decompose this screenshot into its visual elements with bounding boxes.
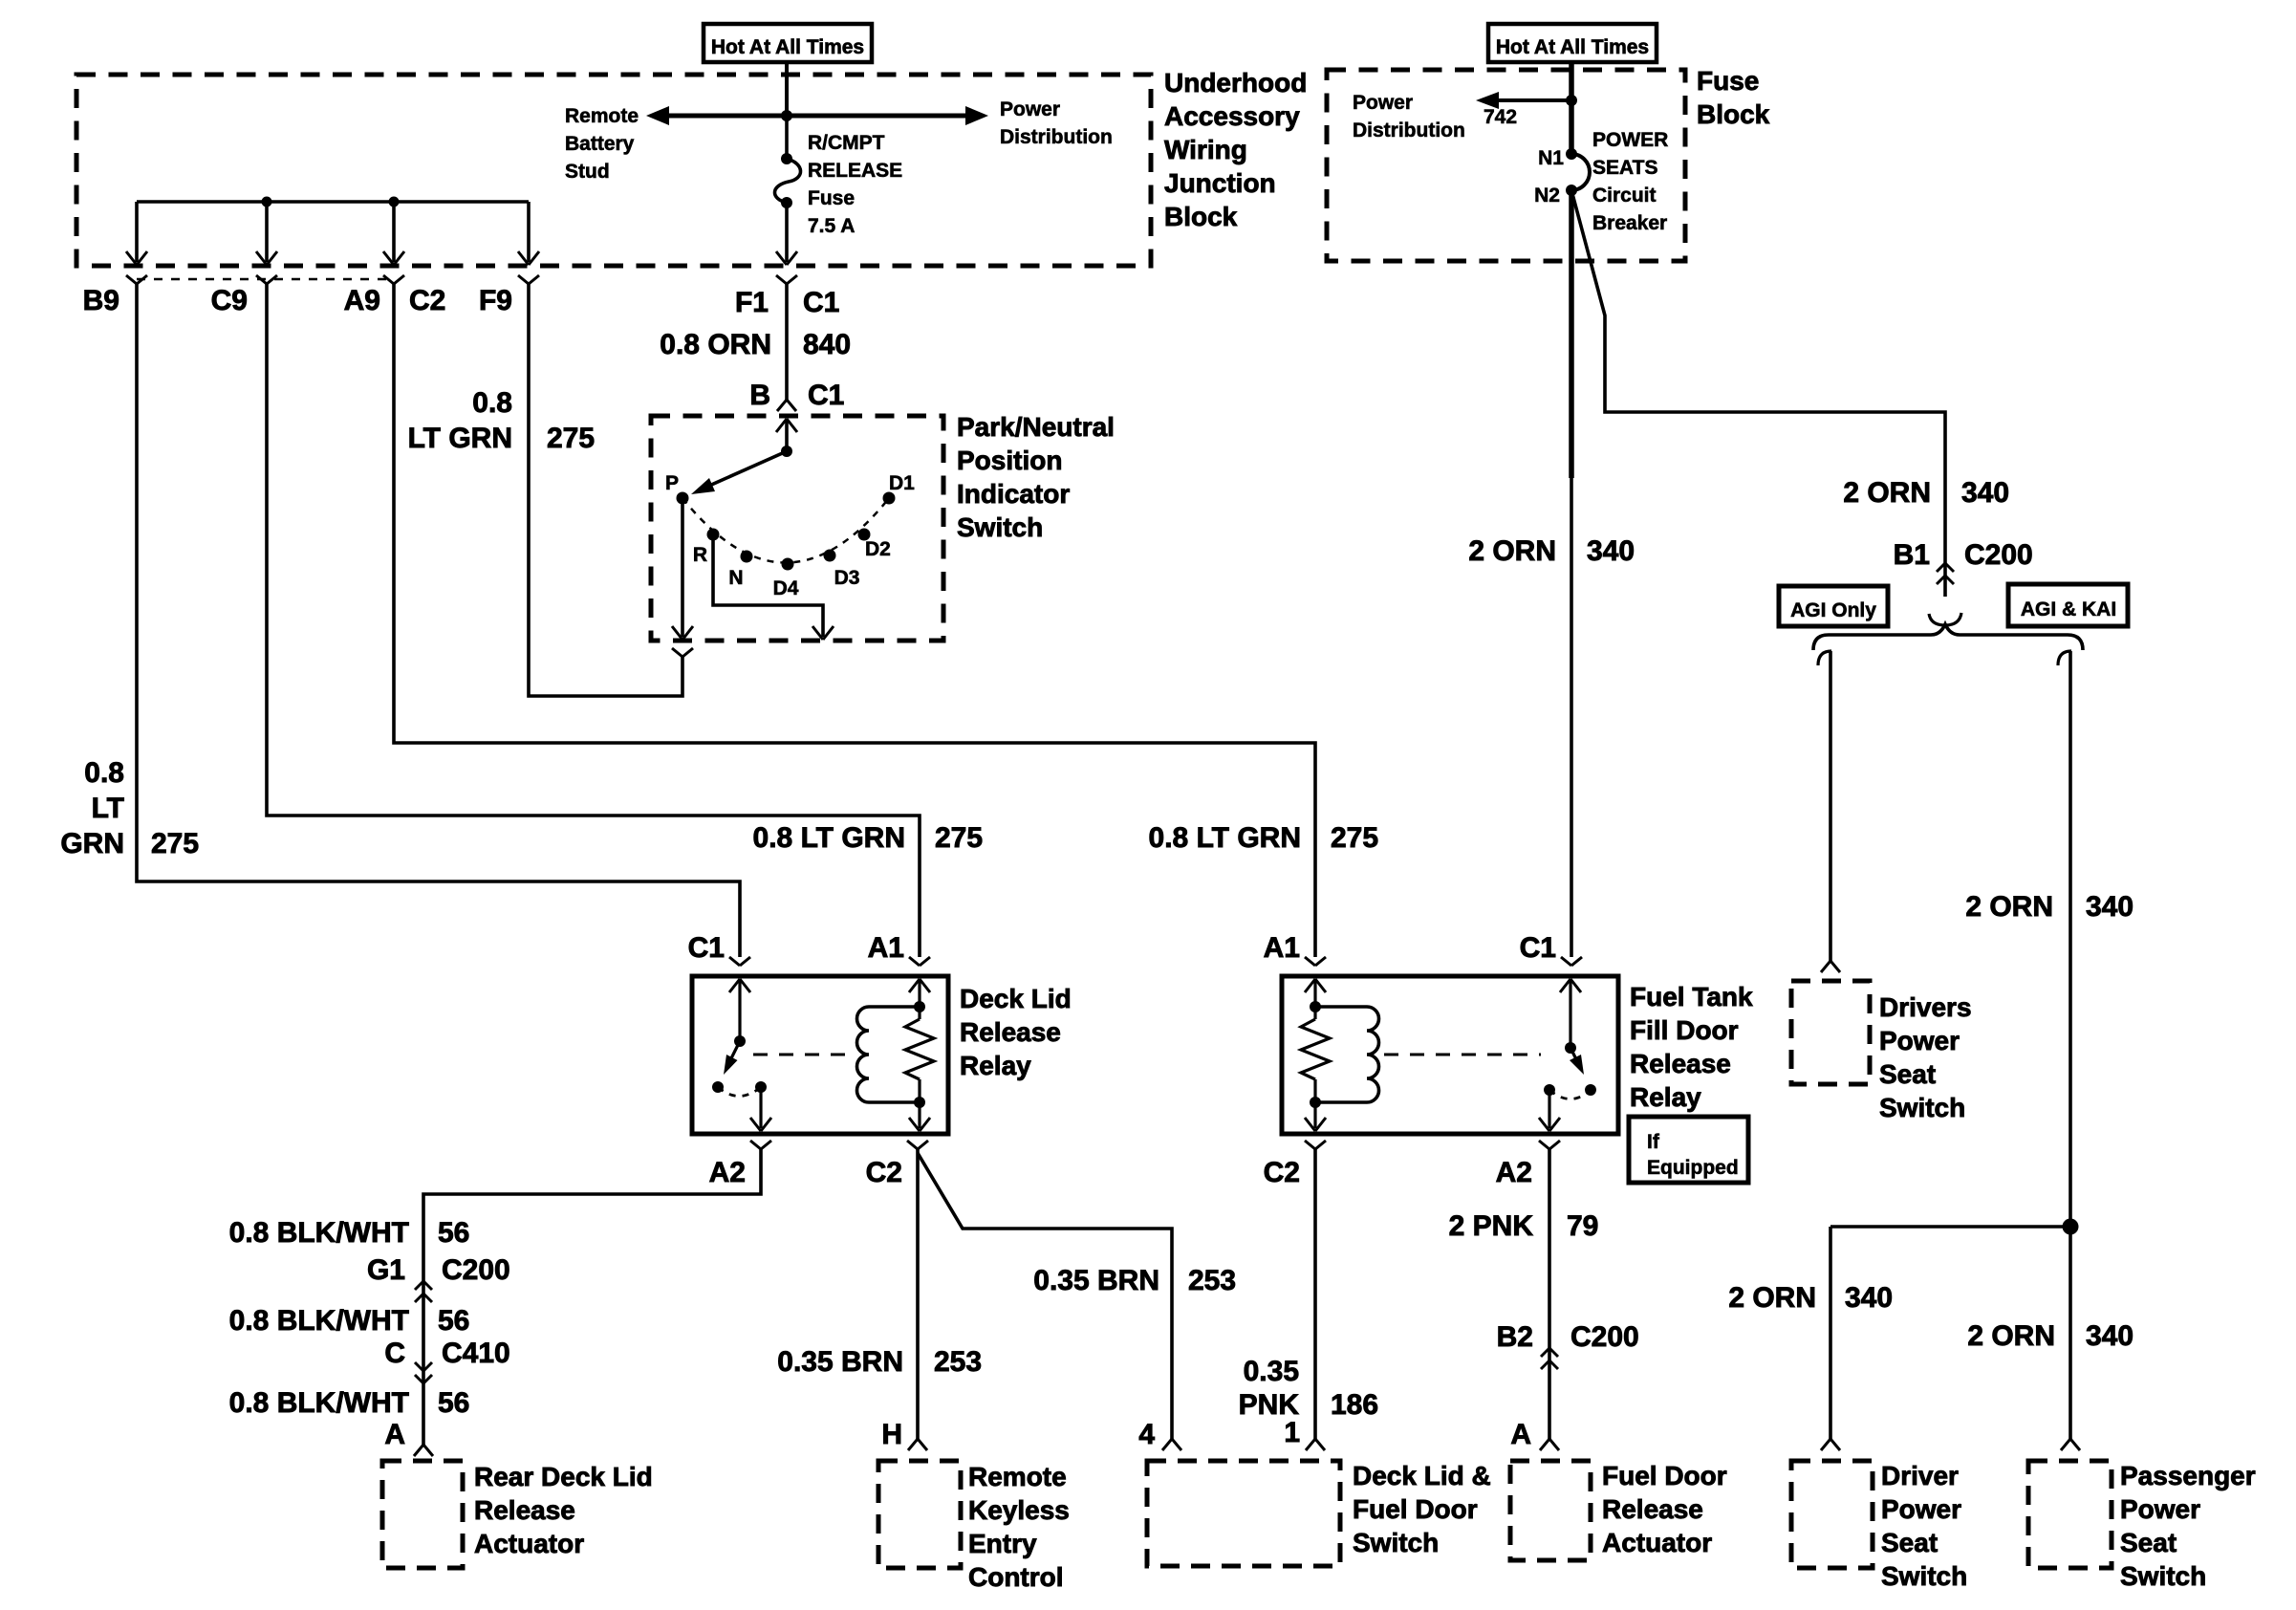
connector below deck relay A2 [750, 1141, 761, 1149]
svg-text:LT: LT [92, 793, 124, 824]
node junction 742 arrow [1566, 95, 1577, 106]
feed wire from Hot At All Times through fuse block [1569, 62, 1574, 154]
remote keyless entry control (dashed box) [878, 1461, 961, 1568]
svg-text:P: P [665, 472, 679, 494]
contact arc (dashed) [682, 498, 889, 563]
node C9 bus junction [262, 197, 272, 207]
svg-text:Seat: Seat [1881, 1528, 1938, 1557]
contact D3 [824, 550, 836, 562]
bus drop wires to B9 C9 A9 F9 [135, 202, 139, 262]
svg-text:C1: C1 [803, 287, 839, 318]
svg-text:Fuse: Fuse [808, 187, 855, 209]
svg-text:RELEASE: RELEASE [808, 160, 902, 182]
svg-text:7.5 A: 7.5 A [808, 215, 855, 237]
relay common contact [1585, 1084, 1596, 1096]
svg-text:H: H [881, 1419, 902, 1450]
svg-text:Power: Power [2120, 1494, 2200, 1524]
svg-text:Power: Power [1353, 92, 1413, 114]
connector below P output [672, 648, 682, 657]
connector F1/C1 below fuse [776, 275, 787, 284]
svg-text:Seat: Seat [1879, 1059, 1936, 1089]
driver power seat switch (dashed box) [1791, 1461, 1873, 1568]
svg-text:79: 79 [1567, 1210, 1598, 1242]
relay C1 pin entry [1560, 979, 1570, 992]
label box Hot At All Times (right) [1488, 24, 1657, 62]
svg-text:Switch: Switch [1881, 1561, 1967, 1591]
svg-text:POWER: POWER [1592, 129, 1668, 151]
svg-text:0.8: 0.8 [472, 387, 512, 419]
svg-text:A9: A9 [344, 285, 380, 316]
POWER SEATS circuit breaker [1566, 148, 1577, 160]
svg-text:Relay: Relay [1630, 1082, 1701, 1112]
svg-text:Remote: Remote [968, 1462, 1067, 1491]
connector below deck relay C2 [907, 1141, 918, 1149]
svg-text:1: 1 [1284, 1417, 1300, 1448]
relay A2 pin exit [759, 1087, 762, 1128]
power distribution arrow (fuse block) [1491, 98, 1571, 102]
switch feed entry arrow B [776, 419, 787, 432]
svg-text:B2: B2 [1497, 1321, 1533, 1353]
contact N [741, 551, 753, 563]
wire deck C2 branch to deck lid & fuel door switch pin 4 [918, 1153, 1172, 1439]
svg-text:Battery: Battery [565, 133, 635, 155]
passenger power seat switch (dashed box) [2028, 1461, 2112, 1568]
wire splice to passenger power seat switch [2069, 1227, 2072, 1439]
svg-text:Driver: Driver [1881, 1461, 1959, 1490]
fuse R/CMPT RELEASE 7.5A [785, 116, 789, 159]
svg-text:R/CMPT: R/CMPT [808, 132, 885, 154]
svg-text:Actuator: Actuator [474, 1529, 584, 1558]
drivers power seat switch (dashed box, AGI only) [1791, 981, 1870, 1084]
relay operate link (dashed) [1384, 1054, 1541, 1056]
svg-text:56: 56 [438, 1387, 469, 1419]
svg-text:R: R [693, 544, 707, 566]
svg-text:Fill Door: Fill Door [1630, 1015, 1739, 1045]
svg-text:Remote: Remote [565, 105, 639, 127]
svg-text:D4: D4 [773, 577, 799, 599]
wire from Hot At All Times into junction block [785, 62, 789, 116]
svg-text:340: 340 [2086, 1320, 2134, 1352]
svg-text:Control: Control [968, 1562, 1064, 1592]
svg-text:275: 275 [547, 423, 595, 454]
svg-text:C2: C2 [1264, 1157, 1300, 1188]
node switch common [781, 446, 792, 457]
node 2 ORN splice [2063, 1219, 2079, 1235]
svg-text:2 ORN: 2 ORN [1843, 477, 1931, 509]
svg-text:253: 253 [934, 1346, 982, 1378]
svg-text:Release: Release [1602, 1494, 1703, 1524]
wire deck C2 to remote keyless entry control [916, 1149, 920, 1439]
bus wire inside junction block [137, 200, 529, 204]
label box AGI & KAI [2008, 584, 2128, 626]
contact D4 [782, 558, 794, 571]
svg-text:840: 840 [803, 329, 851, 360]
svg-text:D3: D3 [834, 567, 860, 589]
contact travel arc [718, 1087, 761, 1097]
svg-text:Breaker: Breaker [1592, 212, 1667, 234]
svg-text:Accessory: Accessory [1164, 101, 1300, 131]
svg-text:Fuel Tank: Fuel Tank [1630, 982, 1753, 1012]
svg-text:253: 253 [1188, 1265, 1236, 1296]
svg-text:Actuator: Actuator [1602, 1528, 1712, 1557]
relay switch pivot [1565, 1042, 1576, 1054]
svg-text:N1: N1 [1538, 147, 1564, 169]
contact P [677, 492, 689, 505]
svg-text:Rear Deck Lid: Rear Deck Lid [474, 1462, 653, 1491]
wire splice to driver power seat switch [1830, 1225, 2070, 1229]
svg-text:C1: C1 [688, 932, 725, 964]
svg-text:Power: Power [1879, 1026, 1960, 1055]
svg-text:275: 275 [1331, 822, 1378, 854]
svg-text:LT GRN: LT GRN [408, 423, 512, 454]
svg-text:56: 56 [438, 1305, 469, 1337]
power distribution double-arrow wire [661, 114, 973, 119]
option split brace [1813, 624, 2083, 650]
relay switch arm [1570, 1048, 1577, 1061]
svg-text:Hot At All Times: Hot At All Times [1496, 36, 1649, 58]
svg-text:2 ORN: 2 ORN [1468, 535, 1556, 567]
svg-text:4: 4 [1138, 1419, 1155, 1450]
rotor arrow pointing to P contact [701, 451, 787, 490]
svg-text:0.35 BRN: 0.35 BRN [777, 1346, 903, 1378]
park/neutral position indicator switch (dashed box) [651, 416, 943, 641]
svg-text:Entry: Entry [968, 1529, 1037, 1558]
svg-text:A: A [1510, 1419, 1531, 1450]
svg-text:Indicator: Indicator [957, 479, 1070, 509]
svg-text:Junction: Junction [1164, 168, 1276, 198]
wire circuit breaker N2 to B1/C200 [1571, 190, 1945, 566]
contact D1 [883, 492, 896, 505]
wire P to F9 link [529, 284, 682, 696]
svg-text:275: 275 [151, 828, 199, 859]
svg-text:Stud: Stud [565, 161, 610, 183]
svg-text:F9: F9 [479, 285, 512, 316]
deck lid & fuel door switch (dashed box) [1147, 1461, 1340, 1566]
label box AGI Only [1779, 586, 1888, 626]
relay coil [857, 1007, 870, 1102]
svg-text:0.35: 0.35 [1244, 1356, 1299, 1387]
svg-text:0.8 BLK/WHT: 0.8 BLK/WHT [229, 1305, 409, 1337]
relay switch arm [729, 1041, 740, 1062]
connector below fuel relay C2 [1305, 1141, 1315, 1149]
fuel tank fill door release relay box [1282, 976, 1618, 1134]
svg-text:N2: N2 [1534, 185, 1560, 207]
svg-text:340: 340 [1587, 535, 1635, 567]
svg-text:Switch: Switch [957, 512, 1043, 542]
svg-text:Fuel Door: Fuel Door [1602, 1461, 1727, 1490]
svg-text:Seat: Seat [2120, 1528, 2177, 1557]
svg-text:340: 340 [1845, 1282, 1893, 1314]
svg-text:Hot At All Times: Hot At All Times [711, 36, 864, 58]
svg-text:Keyless: Keyless [968, 1495, 1070, 1525]
svg-text:0.35 BRN: 0.35 BRN [1033, 1265, 1159, 1296]
fuel door release actuator (dashed box) [1510, 1461, 1591, 1560]
junction block connector row (B9 C9 A9/C2 F9) [137, 278, 394, 281]
wire P contact output [681, 498, 684, 637]
svg-text:Switch: Switch [1879, 1093, 1965, 1122]
svg-text:0.8 ORN: 0.8 ORN [660, 329, 771, 360]
svg-text:Release: Release [1630, 1049, 1731, 1078]
svg-text:2 ORN: 2 ORN [1967, 1320, 2055, 1352]
svg-text:A2: A2 [1496, 1157, 1532, 1188]
svg-text:Distribution: Distribution [1000, 126, 1113, 148]
relay switch pivot [734, 1035, 746, 1047]
svg-text:742: 742 [1484, 106, 1517, 128]
svg-text:B1: B1 [1894, 539, 1930, 571]
wire 0.8 ORN 840 from fuse to park/neutral switch [785, 284, 789, 400]
svg-text:D2: D2 [865, 538, 891, 560]
relay A1 pin / resistor [1305, 979, 1315, 992]
relay common contact [712, 1081, 724, 1093]
svg-text:C9: C9 [211, 285, 248, 316]
svg-text:A: A [384, 1419, 405, 1450]
contact D2 [858, 529, 871, 541]
wire fuel C2 to deck lid & fuel door switch pin 1 [1313, 1149, 1317, 1439]
wire AGI Only branch [1818, 651, 1831, 665]
svg-text:Underhood: Underhood [1164, 68, 1307, 98]
svg-text:Passenger: Passenger [2120, 1461, 2256, 1490]
svg-text:C: C [384, 1338, 405, 1369]
relay A1 pin / resistor [909, 979, 920, 992]
connector below fuel relay A2 [1539, 1141, 1549, 1149]
wire B9 to deck lid relay C1 [137, 284, 740, 957]
rear deck lid release actuator (dashed box) [382, 1461, 463, 1568]
relay A2 contact [1544, 1084, 1555, 1096]
label box If Equipped [1629, 1117, 1748, 1183]
svg-text:Block: Block [1164, 202, 1238, 231]
svg-text:Power: Power [1881, 1494, 1961, 1524]
svg-text:340: 340 [1961, 477, 2009, 509]
svg-text:340: 340 [2086, 891, 2134, 923]
svg-text:2 ORN: 2 ORN [1965, 891, 2053, 923]
svg-text:A2: A2 [709, 1157, 746, 1188]
relay A2 contact [755, 1081, 767, 1093]
svg-text:B9: B9 [83, 285, 119, 316]
svg-text:0.8 LT GRN: 0.8 LT GRN [1149, 822, 1301, 854]
relay operate link (dashed) [753, 1054, 851, 1056]
svg-text:Block: Block [1697, 99, 1770, 129]
svg-text:B: B [749, 380, 770, 411]
svg-text:If: If [1647, 1131, 1660, 1153]
relay A2 pin exit [1548, 1090, 1550, 1128]
svg-text:C200: C200 [1570, 1321, 1639, 1353]
connector B/C1 male end [777, 400, 787, 411]
svg-text:SEATS: SEATS [1592, 157, 1657, 179]
wire R contact output [713, 534, 823, 637]
svg-text:Drivers: Drivers [1879, 992, 1972, 1022]
svg-text:A1: A1 [868, 932, 904, 964]
contact R [707, 529, 720, 541]
contact travel arc [1549, 1090, 1591, 1099]
underhood accessory wiring junction block (dashed box) [76, 75, 1151, 266]
svg-text:2 PNK: 2 PNK [1449, 1210, 1534, 1242]
svg-text:186: 186 [1331, 1389, 1378, 1421]
svg-text:Power: Power [1000, 98, 1060, 120]
svg-text:Switch: Switch [2120, 1561, 2206, 1591]
svg-text:0.8: 0.8 [84, 757, 124, 789]
svg-text:N: N [728, 567, 743, 589]
svg-text:C1: C1 [808, 380, 844, 411]
svg-text:275: 275 [935, 822, 983, 854]
svg-text:56: 56 [438, 1217, 469, 1249]
svg-text:C2: C2 [866, 1157, 902, 1188]
svg-text:AGI & KAI: AGI & KAI [2021, 598, 2116, 620]
svg-text:AGI Only: AGI Only [1790, 599, 1876, 621]
relay C1 pin entry [729, 979, 740, 992]
svg-text:Distribution: Distribution [1353, 120, 1465, 141]
svg-text:Park/Neutral: Park/Neutral [957, 412, 1115, 442]
svg-text:Wiring: Wiring [1164, 135, 1247, 164]
svg-text:Circuit: Circuit [1592, 185, 1657, 207]
svg-text:C200: C200 [442, 1254, 510, 1286]
svg-text:Relay: Relay [960, 1051, 1031, 1080]
svg-text:Release: Release [960, 1017, 1061, 1047]
svg-text:Release: Release [474, 1495, 575, 1525]
svg-text:F1: F1 [735, 287, 769, 318]
svg-text:Equipped: Equipped [1647, 1157, 1739, 1179]
wire C9 to deck lid relay A1 [267, 284, 920, 957]
node A9 bus junction [389, 197, 400, 207]
svg-text:0.8 BLK/WHT: 0.8 BLK/WHT [229, 1387, 409, 1419]
svg-text:G1: G1 [367, 1254, 405, 1286]
svg-text:Fuel Door: Fuel Door [1353, 1494, 1478, 1524]
wire AGI & KAI branch [2058, 651, 2071, 665]
svg-text:C1: C1 [1520, 932, 1556, 964]
svg-text:0.8 LT GRN: 0.8 LT GRN [753, 822, 905, 854]
svg-text:A1: A1 [1264, 932, 1300, 964]
svg-text:Switch: Switch [1353, 1528, 1439, 1557]
svg-text:GRN: GRN [60, 828, 124, 859]
svg-text:C2: C2 [409, 285, 445, 316]
relay coil [1367, 1007, 1378, 1102]
svg-text:Deck Lid &: Deck Lid & [1353, 1461, 1491, 1490]
svg-text:C200: C200 [1964, 539, 2033, 571]
svg-text:Deck Lid: Deck Lid [960, 984, 1072, 1013]
svg-text:0.8 BLK/WHT: 0.8 BLK/WHT [229, 1217, 409, 1249]
svg-text:Fuse: Fuse [1697, 66, 1759, 96]
fuse block (dashed box) [1327, 70, 1685, 261]
wire A9 to fuel tank relay A1 [394, 284, 1315, 957]
svg-text:C410: C410 [442, 1338, 510, 1369]
wire fuel A2 to fuel door release actuator [1548, 1149, 1551, 1439]
label box Hot At All Times (left) [704, 24, 872, 62]
deck lid release relay box [692, 976, 948, 1134]
node: junction of fuse drop and power distribution wire [781, 110, 792, 121]
wire deck A2 to rear deck lid release actuator [423, 1149, 761, 1445]
svg-text:D1: D1 [889, 472, 915, 494]
svg-text:2 ORN: 2 ORN [1728, 1282, 1816, 1314]
svg-text:Position: Position [957, 446, 1062, 475]
